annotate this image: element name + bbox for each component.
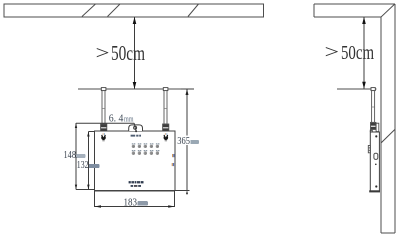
ceiling (left view) [4,4,264,17]
svg-text:365: 365 [177,136,190,147]
hanging tab with 6.4mm hole [129,125,143,131]
device front view body [94,131,175,191]
antenna A2 (right) [163,88,169,131]
svg-text:>: > [96,43,110,64]
svg-text:>: > [325,42,340,63]
svg-text:50cm: 50cm [341,42,374,64]
device side view body [369,130,380,192]
level line at antenna tops (left view) [78,88,194,90]
antenna mount symbol right (inside device) [164,134,169,142]
dimension >50cm (left view) [133,17,137,89]
dimension 148mm line [75,123,77,189]
device bottom band [94,190,175,191]
dimension 6.4mm leader [76,123,137,132]
top-left step [370,130,372,132]
ceiling hatch 1 [82,4,96,17]
wall [381,4,395,233]
device nameplate text lines (bottom center) [129,181,144,187]
antenna mount symbol left (inside device) [101,134,106,142]
label row at device top center [131,135,141,137]
antenna A1 (left) [101,88,107,131]
antenna (side view) [371,88,376,130]
ceiling hatch 2 [108,4,121,17]
terminal circles row1 [132,145,159,148]
svg-text:6. 4: 6. 4 [109,114,124,125]
dimension 183mm line [95,191,175,208]
terminal circles row2 [132,152,159,155]
level line at antenna top (right view) [337,88,376,90]
dimension 365mm line [175,89,194,194]
svg-text:mm: mm [124,114,134,124]
ceiling (right view) [314,4,395,17]
svg-text:50cm: 50cm [111,41,145,65]
dimension >50cm (right view) [362,17,366,89]
indicator marks near device right edge [172,154,175,166]
side view slot [374,153,378,159]
svg-text:132: 132 [77,160,89,171]
terminal block: labels row1 [132,143,160,144]
dimension 132mm line [76,132,94,190]
svg-text:183: 183 [124,197,138,208]
wall-mount hook bracket (side view) [376,123,379,131]
wall hatch [381,130,395,144]
side view left lug [368,146,370,153]
svg-text:148: 148 [64,150,77,161]
side bottom band [369,190,380,192]
terminal block: labels row2 [132,150,160,151]
side view screw holes [375,135,377,187]
ceiling hatch 3 [188,4,199,17]
